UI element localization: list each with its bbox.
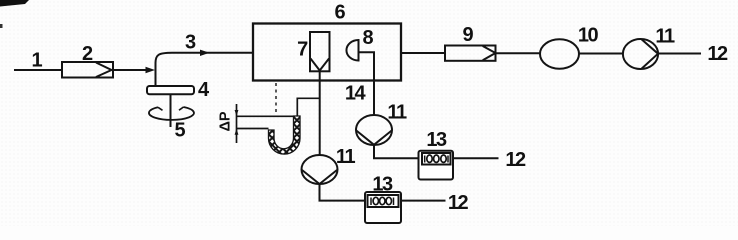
spindle shaft of 5 (170, 95, 172, 128)
svg-text:11: 11 (336, 146, 356, 168)
delta-P dimension line (237, 104, 294, 143)
wire 10 to 11 (579, 53, 623, 55)
wire from 2 to riser junction (113, 69, 147, 71)
counter 13 upper (419, 151, 454, 180)
svg-text:7: 7 (297, 39, 308, 61)
svg-text:9: 9 (462, 24, 473, 46)
svg-text:10: 10 (578, 25, 599, 47)
svg-text:4: 4 (198, 79, 210, 101)
wire stub down to disc 4 (155, 70, 157, 86)
svg-text:11: 11 (387, 102, 407, 124)
wire riser curve to line 3 (156, 53, 254, 70)
wire counter lower to 12 (401, 200, 446, 202)
component 8 (half-disc sensor) (346, 40, 358, 61)
rotation symbol 5 (149, 107, 194, 120)
wire pump middle to counter 13 (374, 145, 419, 159)
svg-text:13: 13 (426, 129, 447, 151)
scan artifact top-left corner (0, 0, 29, 7)
svg-text:12: 12 (505, 149, 526, 171)
component 10 (ellipse) (540, 39, 579, 68)
wire from 7 down to pump (319, 71, 321, 156)
component 7 (funnel tube) (310, 32, 330, 71)
svg-text:11: 11 (655, 26, 675, 48)
wire 11 to outlet 12 (658, 53, 701, 55)
svg-text:3: 3 (185, 32, 196, 54)
svg-text:12: 12 (448, 192, 469, 214)
svg-text:ΔP: ΔP (218, 111, 234, 131)
counter 13 lower (365, 192, 401, 223)
svg-text:1: 1 (31, 50, 42, 72)
wire elbow from U-tube to main drop line (297, 98, 319, 116)
arrowhead at junction (146, 67, 156, 73)
scan artifact left edge tick (0, 24, 3, 28)
svg-text:14: 14 (345, 83, 367, 105)
wire 9 to 10 (496, 52, 541, 54)
svg-text:13: 13 (372, 174, 393, 196)
svg-text:2: 2 (82, 43, 93, 65)
U-tube manometer (hatched) (269, 116, 301, 154)
arrowhead on line 3 (200, 50, 210, 56)
wire inlet line 1 (14, 69, 62, 71)
disc 4 (rotating plate) (147, 86, 194, 94)
wire stub from 8 to line 14 (359, 52, 375, 115)
svg-text:12: 12 (707, 43, 728, 65)
svg-text:8: 8 (362, 27, 373, 49)
component 9 (inline element with chevron) (445, 46, 496, 61)
wire box right to component 9 (401, 52, 445, 54)
box 6 (measurement chamber) (253, 24, 401, 81)
component 2 (inline element with chevron) (62, 62, 113, 78)
dashed pressure tap wire (275, 83, 277, 112)
pump 11 middle (on line 14) (356, 115, 392, 145)
svg-text:6: 6 (334, 1, 345, 23)
wire counter to 12 mid (453, 157, 499, 159)
pump 11 lower (302, 155, 338, 184)
svg-text:5: 5 (174, 120, 185, 142)
pump 11 top right (623, 39, 658, 69)
wire pump lower to counter 13 lower (320, 184, 366, 201)
